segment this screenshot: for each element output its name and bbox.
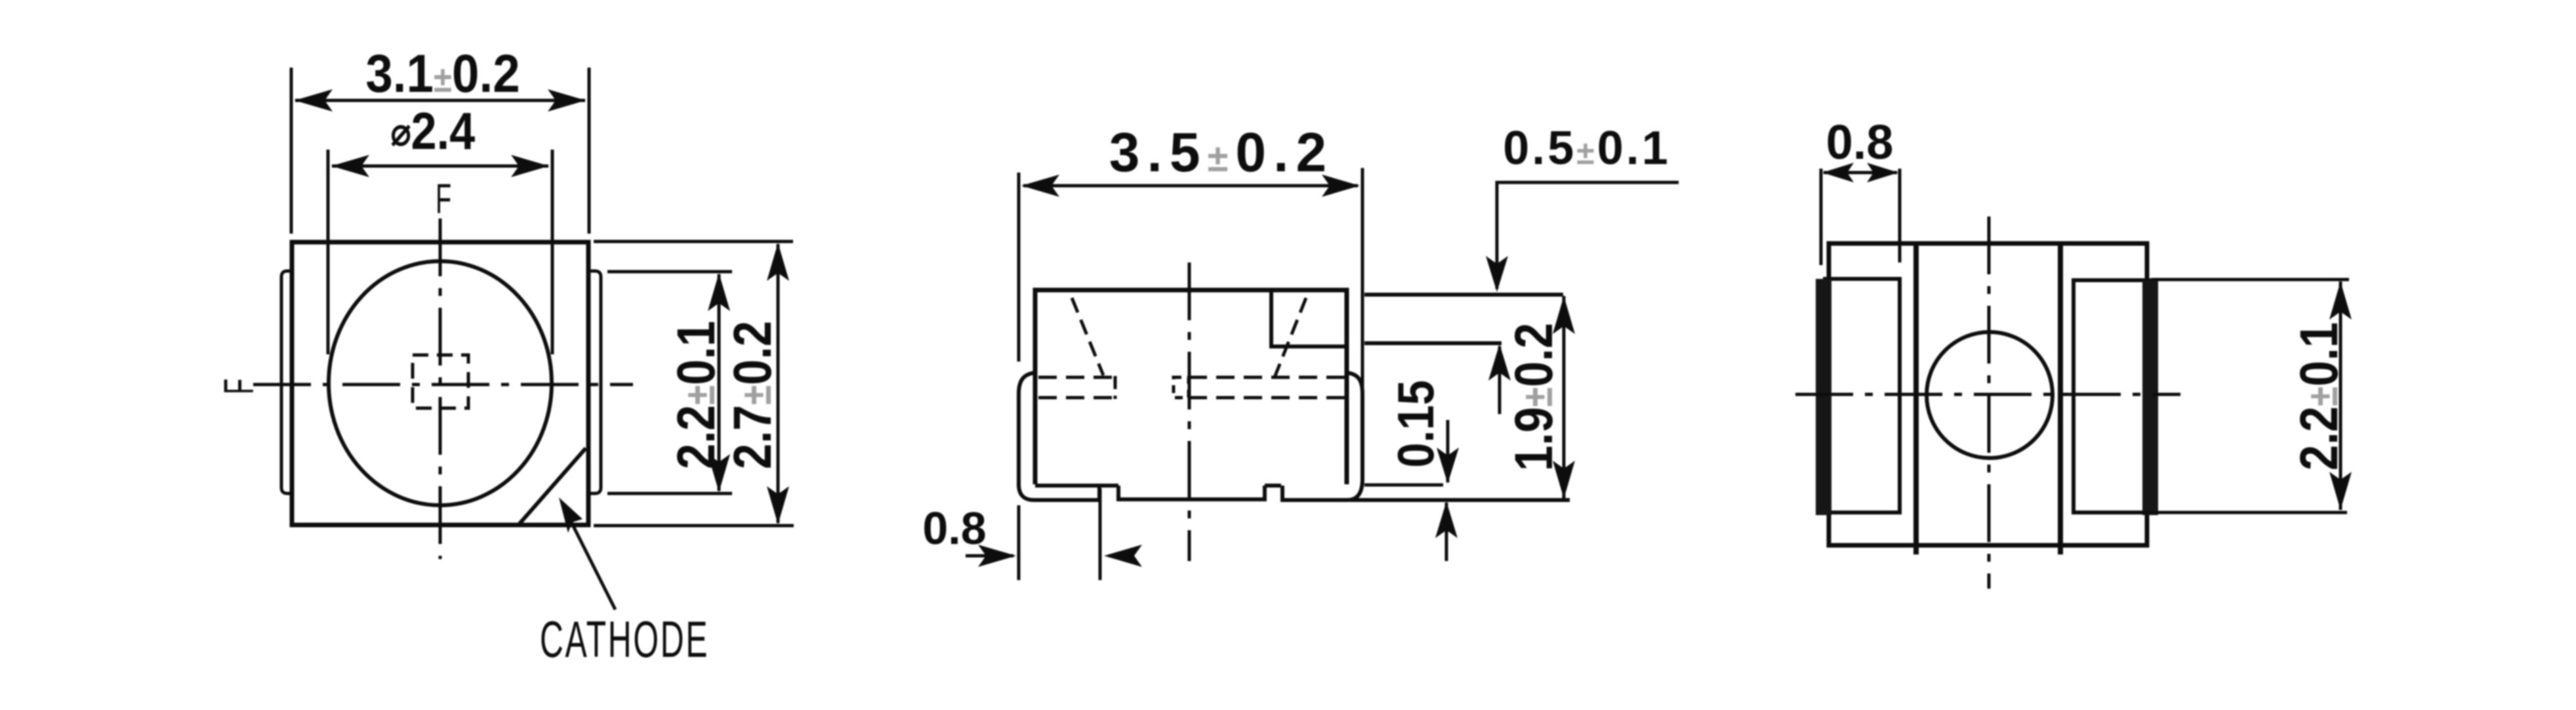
dimension 2.2±0.1 extension lines (right of view)	[607, 270, 732, 274]
dimension 2.2±0.1 extension lines	[2152, 278, 2349, 282]
vertical centerline	[439, 219, 442, 559]
label 3.1±0.2	[365, 43, 520, 104]
lens circle (end view)	[1927, 332, 2053, 458]
label 0.15 (rotated)	[1387, 380, 1444, 468]
hidden reflector cone dashed left	[1072, 298, 1103, 375]
dimension line 3.5	[1023, 184, 1358, 188]
dimension line 1.9 vertical	[1563, 296, 1566, 499]
label 2.2±0.1 (rotated, end view)	[2289, 322, 2349, 470]
vertical centerline	[1188, 262, 1191, 561]
svg-text:⌀2.4: ⌀2.4	[391, 102, 476, 160]
right lead thick face	[2142, 280, 2158, 515]
svg-text:F: F	[436, 177, 451, 223]
up arrow for 0.5 dimension	[1498, 346, 1502, 414]
label 3.5±0.2	[1109, 121, 1334, 183]
top surface extension line	[1364, 293, 1563, 297]
right lead (J-bend)	[1282, 373, 1362, 500]
right lead outline	[2074, 280, 2152, 512]
dimension line 2.2 vertical	[718, 274, 721, 491]
dimension 3.1±0.2 extension lines	[290, 68, 293, 234]
dimension 3.5±0.2 extension lines	[1017, 173, 1021, 362]
body side wall right	[2058, 243, 2063, 554]
horizontal centerline	[253, 383, 633, 386]
vertical centerline	[1988, 217, 1991, 589]
hidden reflector cone dashed right	[1275, 298, 1306, 377]
svg-text:0.8: 0.8	[922, 503, 986, 554]
horizontal centerline	[1795, 393, 2180, 396]
package body outline (top view)	[292, 242, 588, 525]
F mark top	[436, 177, 451, 223]
left electrode tab	[281, 271, 292, 493]
LED die (hidden, dashed square)	[413, 355, 468, 408]
body side wall left	[1913, 243, 1919, 554]
dimension 0.8 extension lines (bottom left)	[1017, 505, 1021, 580]
dimension line 0.8	[1824, 171, 1897, 175]
lead top extension line	[1364, 341, 1502, 345]
0.15 down arrow	[1446, 420, 1450, 482]
label 0.5±0.1	[1503, 122, 1671, 175]
cathode chamfer corner	[520, 448, 586, 524]
left lead thick face	[1816, 279, 1831, 515]
dimension 0.8 extension lines (top)	[1820, 169, 1823, 265]
label 2.2±0.1 (rotated)	[666, 321, 726, 469]
0.8 left arrow	[966, 554, 1013, 558]
svg-text:CATHODE: CATHODE	[540, 611, 709, 668]
label 0.8 (middle view)	[922, 503, 986, 554]
body bottom edge segments	[1035, 484, 1118, 488]
svg-text:0.15: 0.15	[1387, 380, 1444, 468]
svg-text:F: F	[216, 379, 263, 394]
label ⌀2.4	[391, 102, 476, 160]
dimension 2.7±0.2 extension lines	[594, 240, 793, 243]
label 0.8 (end view)	[1826, 115, 1894, 169]
label 2.7±0.2 (rotated)	[723, 321, 783, 469]
svg-text:0.8: 0.8	[1826, 115, 1894, 169]
label CATHODE	[540, 611, 709, 668]
seating plane extension line	[1350, 498, 1570, 502]
leader for 0.5 dimension	[1497, 182, 1679, 289]
lens circle	[329, 261, 552, 505]
0.15 up arrow	[1445, 503, 1448, 561]
body outline (front view)	[1035, 290, 1347, 484]
F mark left (rotated)	[216, 379, 263, 394]
body bottom extension line (0.15 ref)	[1364, 484, 1443, 487]
dimension ⌀2.4 extension lines	[327, 150, 330, 354]
outer body outline (end view)	[1829, 243, 2147, 545]
hidden leadframe dashed band right	[1189, 376, 1345, 379]
label 1.9±0.2 (rotated)	[1504, 323, 1564, 471]
dimension line 2.7 vertical	[777, 244, 780, 523]
0.8 right arrow	[1109, 554, 1133, 558]
cathode leader line	[563, 505, 615, 610]
hidden leadframe dashed band left	[1038, 376, 1115, 379]
right electrode tab	[588, 271, 601, 493]
left lead (J-bend)	[1019, 373, 1099, 500]
cathode step notch (top right)	[1271, 290, 1347, 346]
left lead outline	[1823, 279, 1900, 512]
dimension line 2.4	[332, 165, 548, 168]
dimension line 3.1	[295, 99, 585, 102]
cathode leader arrowhead	[559, 497, 583, 533]
bottom center pedestal	[1118, 486, 1265, 499]
hidden die pad dashed square	[1174, 377, 1189, 398]
dimension line 2.2 vertical	[2339, 282, 2342, 510]
